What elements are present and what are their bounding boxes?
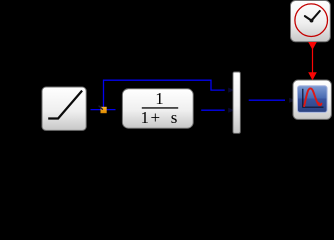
wire branch from junction to Mux input 1	[104, 80, 235, 110]
clock block	[291, 1, 331, 42]
red wire vertical segment	[312, 48, 314, 73]
mux block (vertical bar)	[233, 72, 240, 133]
scope block	[293, 80, 331, 119]
wire from Mux output to Scope input	[249, 98, 296, 103]
svg-text:1: 1	[155, 89, 164, 108]
value label 1/(1+s)	[140, 89, 178, 127]
red wire from Clock output to Scope trigger (top arrowhead)	[308, 42, 317, 50]
ramp source block	[42, 87, 86, 130]
wire from Ramp output to Transfer Fcn input	[91, 107, 123, 113]
red wire arrowhead into Scope	[308, 72, 317, 80]
transfer function block 1/(1+s)	[122, 89, 193, 128]
wire from Transfer Fcn output to Mux input 2	[201, 108, 235, 113]
svg-text:1+s: 1+s	[140, 108, 177, 127]
branch point junction (orange marker)	[99, 106, 107, 114]
